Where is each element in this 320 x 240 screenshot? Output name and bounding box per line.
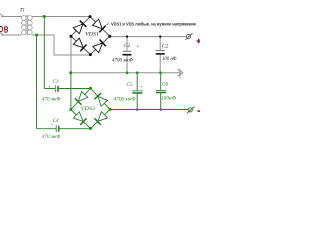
svg-text:C3: C3 — [53, 79, 59, 85]
svg-text:4700 мкФ: 4700 мкФ — [112, 57, 133, 63]
svg-text:470 мкФ: 470 мкФ — [42, 95, 61, 102]
svg-text:+: + — [50, 124, 53, 129]
svg-text:100 нФ: 100 нФ — [162, 56, 177, 62]
svg-text:✓: ✓ — [106, 21, 110, 27]
svg-text:470 мкФ: 470 мкФ — [42, 133, 61, 140]
svg-text:+: + — [48, 85, 51, 90]
svg-text:VDS1 и VDS любые, на нужное на: VDS1 и VDS любые, на нужное напряжение — [111, 21, 197, 26]
svg-text:C6: C6 — [162, 82, 168, 88]
svg-text:VDS2: VDS2 — [81, 106, 96, 112]
svg-text:+: + — [136, 44, 140, 50]
svg-text:T1: T1 — [20, 9, 25, 14]
svg-text:4700 мкФ: 4700 мкФ — [114, 96, 137, 103]
svg-text:C1: C1 — [124, 43, 131, 49]
svg-text:VDS1: VDS1 — [85, 31, 99, 37]
svg-text:100нФ: 100нФ — [161, 95, 177, 101]
svg-text:C5: C5 — [127, 82, 133, 88]
svg-text:C2: C2 — [162, 43, 169, 49]
svg-text:+: + — [140, 85, 144, 91]
